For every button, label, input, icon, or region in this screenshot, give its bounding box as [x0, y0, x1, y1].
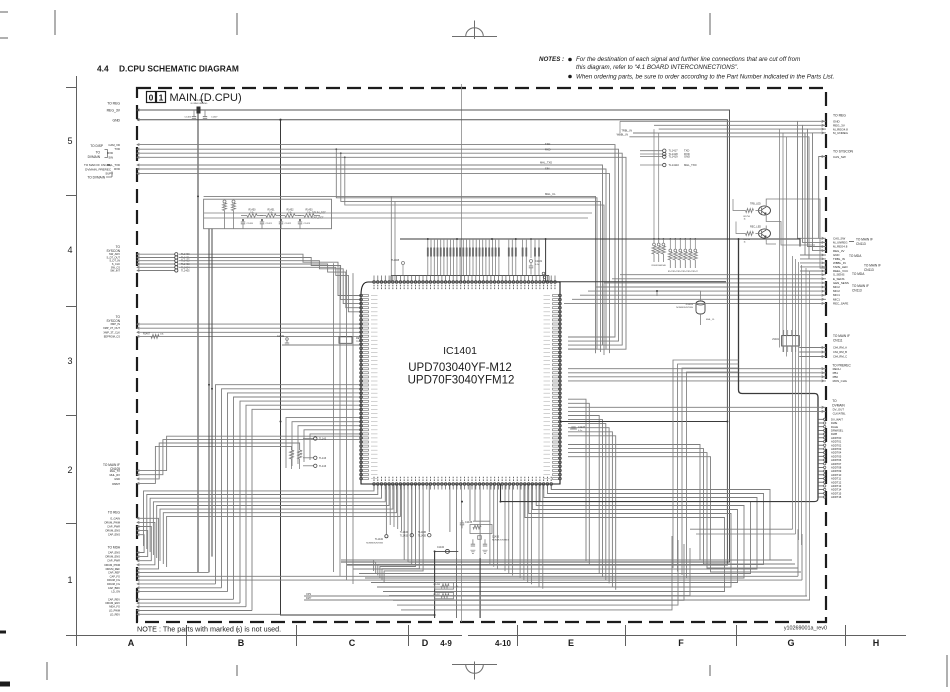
svg-text:TL143: TL143: [319, 465, 327, 468]
svg-text:TL143: TL143: [319, 438, 327, 441]
svg-text:C1435: C1435: [465, 521, 473, 524]
svg-text:TL1433: TL1433: [400, 535, 409, 538]
svg-text:WBBL_IN: WBBL_IN: [617, 132, 629, 136]
svg-text:ADDT07: ADDT07: [831, 462, 842, 466]
svg-text:C64_RM_A: C64_RM_A: [833, 346, 847, 350]
svg-text:DRUM_ENV: DRUM_ENV: [105, 601, 120, 605]
svg-text:REG_3V: REG_3V: [107, 109, 121, 113]
svg-text:R1407: R1407: [143, 333, 151, 336]
svg-text:TL1435: TL1435: [418, 535, 427, 538]
svg-text:1: 1: [159, 93, 164, 103]
crystal X1401: [696, 301, 705, 314]
svg-text:DRUM_FG: DRUM_FG: [107, 578, 120, 582]
svg-text:TO MAIN IF: TO MAIN IF: [864, 264, 881, 268]
black vertical net x198: [197, 110, 199, 572]
svg-text:TL1419: TL1419: [669, 155, 679, 159]
svg-text:A: A: [128, 638, 135, 648]
svg-text:ADDT11: ADDT11: [831, 477, 842, 481]
svg-text:GND: GND: [684, 155, 690, 159]
svg-text:B: B: [238, 638, 245, 648]
svg-text:CAP_PWR: CAP_PWR: [107, 525, 120, 529]
svg-text:CN111: CN111: [833, 339, 843, 343]
svg-text:CAP_ENS: CAP_ENS: [108, 551, 120, 555]
right-side wire group C: [568, 445, 792, 561]
svg-text:TO MDA: TO MDA: [849, 254, 862, 258]
junction dots: [427, 238, 429, 240]
risers from pull-up group A to REG rails: [653, 129, 655, 243]
transistor collector wires: [766, 199, 826, 268]
svg-text:DV_WAIT: DV_WAIT: [831, 417, 843, 421]
IC corner pins top-right going right: [542, 272, 545, 275]
svg-text:C1408: C1408: [195, 98, 203, 102]
svg-text:1k: 1k: [744, 219, 746, 221]
svg-text:RXD: RXD: [114, 167, 120, 171]
reset box: [339, 337, 352, 344]
svg-text:E_GAIN: E_GAIN: [110, 516, 120, 520]
svg-text:4: 4: [67, 245, 72, 255]
svg-text:C1421: C1421: [266, 223, 273, 225]
MHL_CL wire: [204, 196, 596, 353]
svg-text:DRUM_FG: DRUM_FG: [107, 582, 120, 586]
svg-text:G: G: [787, 638, 794, 648]
svg-text:C: C: [349, 638, 356, 648]
CN113 mid-right exit stubs: [800, 254, 826, 256]
svg-text:CN113: CN113: [856, 242, 866, 246]
svg-text:TO MAIN IF CN105,: TO MAIN IF CN105,: [84, 163, 111, 167]
svg-text:ADDT16: ADDT16: [831, 495, 842, 499]
svg-text:UPD703040YF-M12: UPD703040YF-M12: [408, 362, 512, 374]
svg-text:SIN: SIN: [108, 155, 113, 159]
terminal arrow GND: [137, 119, 139, 121]
svg-text:CAP_REV: CAP_REV: [108, 597, 120, 601]
top centre registration target: [452, 21, 497, 40]
black bus route to ADDT comb: [739, 239, 819, 499]
svg-text:LD_REV: LD_REV: [110, 612, 120, 616]
extra verticals from bottom pins into nested bus: [489, 484, 491, 565]
svg-text:TO: TO: [832, 399, 837, 403]
svg-text:5: 5: [67, 136, 72, 146]
right flank tall verticals: [792, 256, 794, 529]
extra nested bottom rows: [388, 484, 390, 596]
svg-text:C1423: C1423: [304, 223, 311, 225]
svg-text:CAM_VD: CAM_VD: [108, 143, 120, 147]
black verticals x209 x212: [208, 229, 210, 573]
svg-text:IC1401: IC1401: [443, 345, 477, 357]
svg-text:TL143: TL143: [319, 457, 327, 460]
svg-text:ADDT04: ADDT04: [831, 451, 842, 455]
top registration tick marks: [54, 10, 56, 35]
svg-text:F: F: [678, 638, 684, 648]
svg-text:XMP_IN: XMP_IN: [110, 322, 120, 326]
svg-text:DRUM_PWM: DRUM_PWM: [104, 520, 120, 524]
IC U1 body outline IC1401: [361, 282, 560, 484]
svg-text:DRUM_ENS: DRUM_ENS: [105, 555, 120, 559]
svg-text:TO SYSCON: TO SYSCON: [833, 150, 853, 154]
svg-text:TO DVMAIN: TO DVMAIN: [87, 176, 105, 180]
mid-right corner risers x673-715: [673, 360, 739, 568]
ADDT exit comb: [818, 418, 824, 420]
TO MDA long bundle: [137, 571, 209, 573]
drops from TXD bundle to y198-205 rails: [336, 149, 597, 349]
svg-text:C1422: C1422: [285, 223, 292, 225]
svg-text:CLK/ATBL: CLK/ATBL: [833, 411, 846, 415]
stubs from feeder to top pins: [373, 276, 375, 281]
svg-text:DMMT: DMMT: [112, 482, 120, 486]
IC bottom left pin fan going left: [144, 484, 375, 546]
transistor Q1402: [759, 229, 771, 238]
IC1401 bottom pin under-stubs: [373, 485, 375, 489]
IC bottom right fan going right: [341, 484, 770, 560]
svg-text:C1409: C1409: [277, 335, 285, 338]
svg-text:XMP_3T_CLK: XMP_3T_CLK: [103, 330, 120, 334]
IC1401 bottom pin row: [373, 483, 376, 486]
svg-text:C64_RM_B: C64_RM_B: [833, 350, 847, 354]
feeder verticals x391/395 to IC top pins: [390, 196, 392, 280]
svg-text:C1431: C1431: [535, 260, 543, 263]
R1436 R1437 resistor boxes: [435, 583, 454, 589]
svg-text:D: D: [422, 638, 429, 648]
svg-text:DRUM_ENS: DRUM_ENS: [105, 529, 120, 533]
svg-text:3: 3: [67, 356, 72, 366]
TXD RXD 4-wire bundle: [137, 145, 615, 337]
svg-text:DRUM_PWM: DRUM_PWM: [104, 563, 120, 567]
svg-text:TL1432: TL1432: [375, 538, 384, 541]
svg-text:H: H: [873, 638, 880, 648]
svg-text:DWE: DWE: [831, 421, 837, 425]
svg-text:y10269001a_rev0: y10269001a_rev0: [784, 626, 827, 632]
svg-text:CAS_SW: CAS_SW: [833, 155, 846, 159]
svg-text:E: E: [568, 638, 574, 648]
svg-text:MHL_TXD: MHL_TXD: [540, 160, 552, 164]
MHL 2-wire bundle: [137, 165, 603, 345]
black vertical net x280: [281, 120, 435, 615]
svg-text:SW_INT: SW_INT: [110, 269, 120, 273]
long verticals under IC centre: [411, 484, 413, 534]
svg-text:TO MAIN IF: TO MAIN IF: [856, 238, 873, 242]
TRBL/WBBL long wires: [633, 133, 805, 255]
capacitor C1437 on right: [570, 428, 577, 430]
svg-text:MHL_CL: MHL_CL: [706, 319, 715, 321]
svg-text:2: 2: [67, 465, 72, 475]
svg-text:this diagram, refer to “4.1 BO: this diagram, refer to “4.1 BOARD INTERC…: [576, 64, 739, 71]
test link circles TL1417-TL1420: [640, 150, 663, 152]
svg-text:For the destination of each si: For the destination of each signal and f…: [576, 56, 800, 63]
svg-text:1k: 1k: [744, 242, 746, 244]
svg-text:1: 1: [67, 575, 72, 585]
svg-text:REC_SAFE: REC_SAFE: [833, 301, 848, 305]
svg-text:TO REG: TO REG: [107, 102, 120, 106]
TO SYSCON bundle 2: [137, 323, 361, 325]
svg-text:DRUM_REF: DRUM_REF: [106, 567, 121, 571]
svg-text:EEPROM_CS: EEPROM_CS: [104, 334, 121, 338]
svg-text:MON_CHG: MON_CHG: [833, 379, 847, 383]
frame row ticks: [66, 87, 77, 89]
svg-text:TO MAIN IF: TO MAIN IF: [852, 284, 869, 288]
svg-text:ADDT08: ADDT08: [831, 466, 842, 470]
svg-text:0: 0: [149, 93, 154, 103]
svg-text:MHL_TXD: MHL_TXD: [684, 163, 697, 167]
TL1408 circle left of feeder: [402, 262, 405, 265]
svg-text:ADDT06: ADDT06: [831, 458, 842, 462]
TO SYSCON bundle 1: [137, 253, 175, 255]
svg-text:DVMAIN: DVMAIN: [88, 155, 101, 159]
svg-text:CN113: CN113: [864, 268, 874, 272]
svg-text:C1407: C1407: [211, 117, 218, 119]
svg-text:ADDT14: ADDT14: [831, 488, 842, 492]
svg-text:NONMOUNTING: NONMOUNTING: [492, 540, 509, 542]
svg-text:TO DISP: TO DISP: [90, 144, 103, 148]
pull-up resistor group B: [669, 249, 672, 252]
fan to IC left pins lower group: [352, 384, 361, 386]
IC bottom second fan left-down: [374, 484, 405, 571]
X1401 wires: [657, 291, 701, 296]
svg-text:TXD: TXD: [114, 147, 120, 151]
capacitor cluster C1408 on REG rail: [193, 110, 195, 116]
svg-text:CAP_FG: CAP_FG: [110, 574, 120, 578]
TL circles lower mid: [303, 438, 314, 440]
ground hatches: [470, 550, 475, 553]
mid-left riser columns: [216, 385, 353, 584]
svg-text:ADDT13: ADDT13: [831, 484, 842, 488]
svg-text:TL14110: TL14110: [669, 163, 680, 167]
svg-text:TO REG: TO REG: [833, 114, 846, 118]
C1434 circle on wire: [435, 550, 459, 552]
svg-text:M_UNREG: M_UNREG: [833, 131, 849, 135]
IC1401 left pin column: [360, 294, 363, 297]
svg-text:CAP_PWR: CAP_PWR: [107, 559, 120, 563]
svg-text:D.CPU SCHEMATIC DIAGRAM: D.CPU SCHEMATIC DIAGRAM: [119, 64, 239, 74]
svg-text:MDA_FG: MDA_FG: [109, 605, 120, 609]
bottom registration ticks: [46, 662, 48, 680]
wires DRUM_REF/CAP_REF into array: [204, 212, 592, 214]
svg-text:TO MDA: TO MDA: [852, 272, 865, 276]
verticals bottom center going down: [340, 484, 342, 560]
svg-text:ADDT00: ADDT00: [831, 436, 842, 440]
svg-text:X1401: X1401: [685, 302, 693, 306]
svg-text:4-9: 4-9: [440, 639, 452, 648]
svg-text:C1434: C1434: [437, 546, 445, 549]
svg-text:MHL_CL: MHL_CL: [545, 192, 556, 196]
svg-text:ADDT05: ADDT05: [831, 454, 842, 458]
TO SYSCON CAS_SW wire: [819, 157, 826, 239]
nested rect risers right mid: [619, 275, 621, 337]
risers into IC lower-left pins: [286, 418, 361, 468]
junction dots on rails: [197, 109, 199, 111]
svg-text:R1436: R1436: [434, 584, 441, 586]
svg-text:MHL_TX: MHL_TX: [110, 469, 121, 473]
bottom column ticks: [76, 625, 78, 646]
black bus return along y501.6 to IC bottom: [501, 484, 819, 502]
svg-text:TXD: TXD: [545, 142, 550, 146]
svg-text:C1420: C1420: [247, 223, 254, 225]
top-right feeder verticals to CN111: [779, 129, 781, 347]
resistor array box: [204, 199, 332, 229]
IC1401 top pin row: [373, 281, 376, 284]
svg-text:TL1408: TL1408: [391, 260, 400, 262]
svg-text:C1406: C1406: [185, 117, 192, 119]
long mid verticals x333-353: [333, 263, 335, 572]
black horizontal y421: [435, 421, 728, 423]
page fold line: [461, 84, 463, 622]
svg-text:ADDT15: ADDT15: [831, 491, 842, 495]
svg-text:GND: GND: [114, 477, 120, 481]
svg-text:4-10: 4-10: [495, 639, 512, 648]
wire GND rail: [137, 120, 727, 565]
terminal arrow REG_3V: [137, 109, 139, 111]
page frame: left rule: [76, 76, 78, 646]
svg-text:TO: TO: [96, 151, 101, 155]
svg-text:ADDT09: ADDT09: [831, 469, 842, 473]
TL1434 TL1435 test circles: [410, 534, 413, 537]
array capacitors C1420-C1423: [242, 219, 244, 222]
bottom long horizontals to right flank: [304, 595, 807, 597]
transistor Q1401: [759, 206, 771, 215]
right-side wires to TO PREREC exits: [568, 368, 826, 370]
svg-text:ADDT03: ADDT03: [831, 447, 842, 451]
svg-text:CAP_ENS: CAP_ENS: [108, 533, 120, 537]
svg-text:TO REG: TO REG: [108, 511, 121, 515]
SENS exit wires: [620, 274, 826, 276]
svg-text:CAP_BRK: CAP_BRK: [108, 586, 120, 590]
R1411 R1412 vertical resistors: [290, 450, 294, 459]
svg-text:ADDT10: ADDT10: [831, 473, 842, 477]
svg-text:C64_RM_C: C64_RM_C: [833, 355, 847, 359]
svg-text:DVMAIN, PREREC: DVMAIN, PREREC: [85, 168, 112, 172]
SYSCON bundle continue to IC staircase: [179, 254, 361, 295]
component cluster mid-bottom C1433: [473, 520, 490, 522]
svg-text:ADDT12: ADDT12: [831, 480, 842, 484]
svg-text:DRW/SEL: DRW/SEL: [831, 429, 844, 433]
svg-text:TO MDA: TO MDA: [108, 546, 121, 550]
IC1401 right pin column: [559, 294, 562, 297]
svg-text:CAP_REF: CAP_REF: [108, 570, 120, 574]
block id boxes 0 1: [147, 92, 156, 103]
mid verticals x390-408: [389, 484, 391, 525]
bottom scale rule: [66, 635, 462, 637]
resistor R for Q1401: [746, 209, 754, 213]
black top bus y239: [400, 239, 800, 247]
wire REG_3V top rail: [137, 110, 730, 562]
svg-text:UPD70F3040YFM12: UPD70F3040YFM12: [408, 375, 515, 387]
svg-text:TL1405: TL1405: [181, 270, 190, 273]
svg-text:XMP_3T_OUT: XMP_3T_OUT: [103, 326, 120, 330]
svg-text:C1437: C1437: [578, 426, 586, 429]
svg-text:LD_ON: LD_ON: [111, 590, 120, 594]
svg-text:TRB_LED: TRB_LED: [750, 203, 761, 206]
svg-text:OPS: OPS: [306, 593, 311, 596]
svg-text:TRBL_IN: TRBL_IN: [621, 129, 632, 133]
black verticals to bottom border: [434, 551, 436, 618]
svg-text:TO MAIN IF: TO MAIN IF: [833, 334, 850, 338]
horizontal feeder y275.5: [391, 275, 549, 277]
svg-text:When ordering parts, be sure t: When ordering parts, be sure to order ac…: [576, 74, 834, 81]
reset circuit C1409: [282, 344, 361, 346]
black bus drop to pin feeder: [546, 239, 726, 282]
svg-text:DALE: DALE: [831, 425, 838, 429]
pull-up resistor group A: [653, 243, 656, 246]
svg-text:NOTES :: NOTES :: [539, 56, 564, 63]
svg-text:4.4: 4.4: [97, 64, 109, 74]
bottom centre registration target: [452, 662, 497, 680]
svg-text:NONMOUNTING: NONMOUNTING: [366, 543, 383, 545]
pull-up resistors R1419 R1420: [223, 200, 226, 203]
svg-text:Z1401: Z1401: [772, 338, 779, 341]
svg-text:MHL_RX: MHL_RX: [109, 473, 120, 477]
bus risers to IC top pins with name blobs: [427, 239, 429, 276]
component on fold line C1435: [461, 520, 463, 523]
svg-text:) is not used.: ) is not used.: [240, 625, 281, 634]
svg-text:SIN: SIN: [545, 166, 549, 170]
svg-text:RXD: RXD: [545, 147, 551, 151]
C1431 cap above IC: [530, 239, 532, 258]
TO REG right cluster wires GND REG_3V M_REG4.8 M_UNREG: [620, 121, 826, 238]
svg-text:LD_PWM: LD_PWM: [109, 609, 120, 613]
svg-text:CN113: CN113: [852, 289, 862, 293]
svg-text:NONMOUNTING: NONMOUNTING: [676, 307, 693, 309]
svg-text:DW8: DW8: [831, 432, 837, 436]
filter FL1401: [782, 336, 800, 346]
right flank bottom bends to the left: [690, 528, 793, 530]
right-side wire group B down columns: [568, 399, 586, 561]
svg-text:C1433: C1433: [492, 536, 500, 539]
TO MAIN IF CN105 bundle: [137, 436, 361, 470]
svg-text:NONMOUNTING: NONMOUNTING: [191, 103, 208, 105]
wires to filter: [740, 330, 784, 331]
svg-text:GND: GND: [112, 119, 120, 123]
svg-text:NOTE : The parts with marked (: NOTE : The parts with marked (: [137, 625, 239, 634]
svg-text:ADDT01: ADDT01: [831, 440, 842, 444]
dashed border of MAIN (D.CPU) block: [137, 88, 826, 622]
svg-text:ADDT02: ADDT02: [831, 443, 842, 447]
TO REG bottom exits with U-turn nest: [137, 518, 159, 569]
svg-text:REC_LED: REC_LED: [750, 226, 761, 229]
right flank risers from long MDA wires: [797, 529, 799, 576]
svg-text:DMY: DMY: [306, 597, 312, 600]
resistor R for Q1402: [746, 232, 754, 236]
